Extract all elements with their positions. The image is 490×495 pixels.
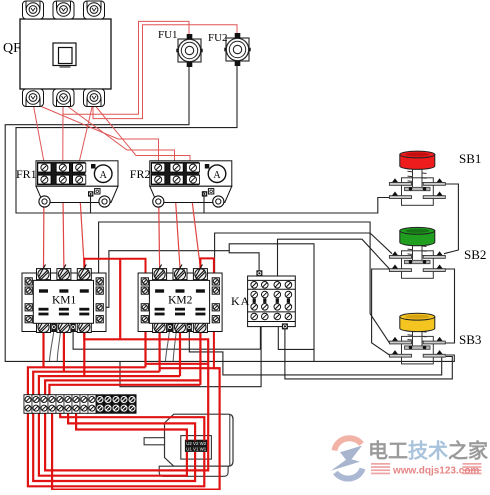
wire KM1 coil gray leads bbox=[50, 332, 61, 361]
wire QF T1 to FR2 L1 bbox=[33, 103, 159, 162]
wire KA bottom terminal to rail junction bbox=[278, 326, 314, 349]
wire KM1-KM2 phase swap b bbox=[119, 259, 121, 340]
wire from FU1 bottom: control rail L1 down-left-down to bottom rail bbox=[5, 62, 314, 361]
wire KM2 T3 output drop bbox=[199, 332, 201, 385]
wire phase bus 2 loop to motor V1 bbox=[33, 372, 195, 481]
wire KM1 T3 output drop bbox=[83, 332, 85, 376]
wire strip to motor U2 bbox=[76, 411, 187, 441]
wire KM1 T3 swap loop around motor to strip bbox=[45, 332, 208, 470]
svg-text:FR2: FR2 bbox=[130, 167, 151, 181]
contactor KM1 bbox=[22, 265, 106, 333]
wire branch down to SB3 upper-left arm bbox=[370, 233, 389, 343]
wire FR2 out3 to KM2 L3 bbox=[190, 184, 200, 268]
wire SB1 right arm down to SB2 right-upper arm bbox=[444, 184, 458, 254]
svg-text:SB2: SB2 bbox=[464, 247, 486, 262]
wire QF T3 tap to FU2 top bbox=[93, 25, 237, 119]
KA bottom terminal bbox=[282, 323, 288, 329]
svg-text:A: A bbox=[100, 170, 108, 181]
svg-text:FR1: FR1 bbox=[16, 167, 37, 181]
wire phase bus 3 loop to motor U1 bbox=[39, 376, 187, 476]
svg-text:KM1: KM1 bbox=[52, 295, 77, 307]
svg-text:KM2: KM2 bbox=[168, 295, 193, 307]
wire KM1 T2 output drop bbox=[63, 332, 65, 372]
wire QF T3 to FR1 L3 bbox=[79, 103, 93, 162]
wire from FU2 bottom: control rail L2 to FR contact chain and SB1 bbox=[16, 62, 389, 213]
wire KA bottom terminal 2 to SB3 loop bbox=[285, 325, 452, 379]
wire KM2 coil gray leads bbox=[166, 332, 177, 361]
wire KM2 left column output drop bbox=[144, 322, 146, 367]
push button SB3 cap bbox=[400, 313, 435, 331]
wire QF T2 to FR2 L2 bbox=[63, 103, 175, 162]
wire KM2 left col branch to motor loop bbox=[146, 363, 209, 365]
push button SB1 cap bbox=[400, 151, 435, 169]
wire QF T2 to FR1 L2 bbox=[62, 103, 64, 162]
QF top terminal at x=63.5 bbox=[53, 1, 74, 19]
svg-text:SB1: SB1 bbox=[459, 151, 481, 166]
svg-text:QF: QF bbox=[3, 41, 21, 56]
wire KM1-KM2 phase swap a bbox=[84, 259, 145, 282]
motor shaft bbox=[144, 438, 164, 445]
QF bottom terminal at x=63.5 bbox=[53, 89, 74, 107]
wire KM2 T1 branch big loop around motor to strip bbox=[52, 368, 220, 489]
wire KM2 T2 output drop bbox=[179, 332, 181, 376]
QF toggle handle bbox=[53, 43, 76, 67]
wire bottom rail continuation to SB3 lower-right arm bbox=[314, 355, 454, 361]
wire KM1 NO aux to SB2 upper-left arm and SB3 branch bbox=[99, 222, 392, 281]
motor base foot bbox=[159, 466, 228, 476]
thermal overload relay FR1 bbox=[36, 161, 118, 207]
wire phase bus 5 to strip top bbox=[49, 385, 200, 395]
svg-text:SB3: SB3 bbox=[459, 332, 481, 347]
wire KM2 T1 output drop bbox=[159, 332, 161, 372]
motor M body bbox=[144, 414, 233, 476]
wire phase bus 1 loop to motor W1 bbox=[28, 367, 204, 486]
push button SB1 body bbox=[389, 167, 445, 206]
svg-text:www.dqjs123.com: www.dqjs123.com bbox=[392, 466, 479, 477]
wire QF T2 tap to FU1 top bbox=[63, 21, 189, 114]
wire KA coil A2 return to rail bbox=[120, 327, 261, 387]
svg-text:U1 V1 W1: U1 V1 W1 bbox=[186, 447, 207, 452]
wire FR2 out1 to KM2 L1 bbox=[159, 184, 160, 268]
wire KA coil branch to rail bbox=[229, 244, 314, 362]
wire stub FR1 NC contact to chain bbox=[90, 194, 92, 213]
push button SB3 body bbox=[389, 325, 445, 364]
wire phase bus 4 to strip top bbox=[45, 380, 200, 394]
wire KM1 T1 output drop bbox=[42, 332, 44, 367]
wire FR1 out3 to KM1 L3 bbox=[79, 184, 84, 268]
wire KM2 coil A1 staircase to SB3 right arm bbox=[189, 332, 445, 375]
wire FR1 out1 to KM1 L1 bbox=[43, 184, 46, 268]
wire FR2 out2 to KM2 L2 bbox=[175, 184, 181, 268]
motor terminal box bbox=[181, 436, 212, 460]
relay KA body bbox=[248, 270, 296, 329]
QF top terminal at x=33 bbox=[23, 1, 44, 19]
watermark url banner bbox=[371, 463, 482, 477]
watermark logo bbox=[331, 438, 363, 478]
KA top terminal bbox=[256, 270, 262, 276]
wire stub FR2 NC contact to chain bbox=[203, 191, 205, 213]
wire KA top row 3 to SB2 lower-left arm bbox=[278, 239, 390, 284]
contactor KM2 bbox=[138, 265, 222, 333]
wire strip to motor V2 bbox=[68, 411, 195, 441]
fuse FU2 bbox=[224, 33, 250, 66]
circuit breaker QF body bbox=[20, 19, 111, 89]
push button SB2 body bbox=[389, 240, 445, 279]
svg-text:FU1: FU1 bbox=[158, 29, 178, 41]
svg-text:FU2: FU2 bbox=[208, 32, 228, 44]
svg-text:KA: KA bbox=[231, 294, 250, 308]
svg-text:U2 V2 W2: U2 V2 W2 bbox=[186, 441, 207, 446]
wire SB2 lower-left arm down to SB3 left-lower arm bbox=[372, 269, 390, 355]
wire KM2 NO aux joining branch bbox=[215, 233, 371, 281]
QF bottom terminal at x=33 bbox=[23, 89, 44, 107]
terminal strip XT bbox=[24, 395, 136, 413]
wire strip to motor W2 bbox=[60, 411, 204, 441]
wire KM1 aux right column to KA top terminal staircase bbox=[103, 251, 259, 308]
QF bottom terminal at x=94 bbox=[84, 89, 105, 107]
svg-text:电工技术之家: 电工技术之家 bbox=[368, 439, 489, 463]
wire KM1 coil A2 to KA bottom-left terminal bbox=[73, 326, 260, 349]
QF top terminal at x=94 bbox=[84, 1, 105, 19]
wire FR1 out2 to KM1 L2 bbox=[63, 184, 64, 268]
wire SB2 right-lower arm down to SB3 right-upper arm bbox=[446, 269, 455, 343]
fuse FU1 bbox=[176, 34, 202, 67]
wire QF T1 to FR1 L1 bbox=[33, 103, 44, 162]
wire KM2 phase swap c bbox=[200, 258, 219, 368]
thermal overload relay FR2 bbox=[150, 161, 232, 207]
push button SB2 cap bbox=[400, 227, 435, 245]
wire QF T3 to FR2 L3 bbox=[93, 103, 190, 162]
svg-text:A: A bbox=[213, 170, 221, 181]
